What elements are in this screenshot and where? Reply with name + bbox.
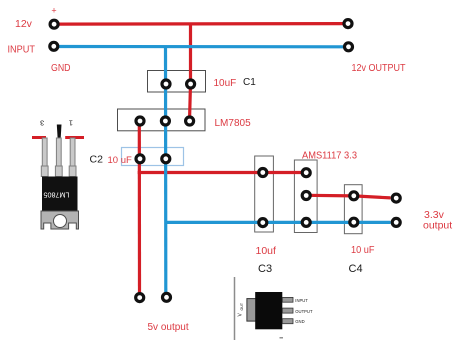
capacitor C4 pin 1 [350,192,358,200]
svg-text:INPUT: INPUT [8,45,36,56]
capacitor C4 box [344,185,362,234]
svg-text:1: 1 [69,118,73,127]
wire blue horizontal gnd to C3 U2 C4 and 3.3v output [166,221,391,224]
package tab with notches [41,211,79,229]
regulator U2 AMS1117 box [294,160,317,233]
svg-text:12v OUTPUT: 12v OUTPUT [352,63,406,74]
wire red vertical 12v to C1 and U1 pin3 [190,24,191,121]
svg-text:C3: C3 [258,263,272,275]
svg-text:INPUT: INPUT [295,298,308,303]
transistor package U1 LM7805 TO-220 drawing [32,118,84,229]
node terminal 12v output [344,20,352,28]
svg-text:V: V [238,313,244,317]
package leg 2 [55,138,62,177]
wire blue vertical gnd through C1 U1 C2 to 5v gnd [164,47,168,294]
capacitor C3 pin 2 [259,219,267,227]
package body [42,177,78,212]
svg-text:12v: 12v [15,18,33,30]
capacitor C4 pin 2 [350,218,358,226]
regulator U1 pin 1 [136,117,144,125]
package tab [247,299,257,322]
inset border line [234,277,236,340]
svg-text:10 uF: 10 uF [351,244,375,256]
svg-text:C1: C1 [243,77,256,88]
package tab hole [54,215,67,228]
capacitor C1 pin 2 [187,80,195,88]
node terminal gnd output [345,43,353,51]
svg-text:GND: GND [295,319,304,324]
inset bottom mark [280,337,284,339]
regulator U2 pin 1 [302,169,310,177]
wire red 3.3v from U2 output through C4 to 3.3v output [306,195,390,198]
svg-text:3: 3 [40,118,44,127]
package pin 2 stub black [57,125,62,139]
node terminal 3.3v output plus [392,194,400,202]
regulator U1 LM7805 box [118,109,206,131]
package body [255,292,282,329]
svg-text:LM7805: LM7805 [215,118,252,129]
package pin OUTPUT [282,308,293,313]
svg-text:output: output [423,219,452,231]
capacitor C2 pin 2 [162,155,170,163]
capacitor C2 pin 1 [136,155,144,163]
regulator U2 pin 3 [302,218,310,226]
svg-text:5v output: 5v output [148,322,189,333]
package leg 1 [69,138,76,177]
wire red vertical 5v from U1 pin1 through C2 to 5v output [138,121,141,293]
wire red stub left [32,136,46,139]
regulator U1 pin 2 [161,117,169,125]
wire red horizontal 5v to C3 and U2 input [138,171,307,174]
node terminal 5v output gnd [163,293,171,301]
wire red 12v top rail [59,22,343,26]
node terminal gnd input [50,42,58,50]
package leg 3 [41,138,48,177]
svg-text:OUT: OUT [240,302,244,310]
capacitor C1 pin 1 [162,80,170,88]
wire blue gnd top rail [59,45,343,48]
package pin GND [282,319,293,324]
capacitor C3 pin 1 [259,169,267,177]
svg-text:C4: C4 [349,263,363,275]
node terminal 12v input [50,20,58,28]
capacitor C2 box [122,148,184,166]
svg-text:AMS1117 3.3: AMS1117 3.3 [302,151,358,162]
regulator U2 AMS1117 SOT-223 pinout inset [235,277,313,340]
svg-text:C2: C2 [90,154,104,166]
svg-text:GND: GND [51,63,71,74]
regulator U1 pin 3 [186,117,194,125]
svg-text:10uF: 10uF [214,78,237,89]
node terminal 3.3v output gnd [392,218,400,226]
svg-text:+: + [51,6,56,16]
svg-text:10 uF: 10 uF [108,155,132,166]
node terminal 5v output plus [136,294,144,302]
svg-text:OUTPUT: OUTPUT [295,309,313,314]
package pin INPUT [282,297,293,302]
regulator U2 pin 2 [302,192,310,200]
capacitor C1 box [148,71,206,93]
capacitor C3 box [255,156,274,232]
svg-text:10uf: 10uf [256,245,277,257]
wire red stub right [65,136,84,139]
svg-text:LM7805: LM7805 [44,190,70,199]
